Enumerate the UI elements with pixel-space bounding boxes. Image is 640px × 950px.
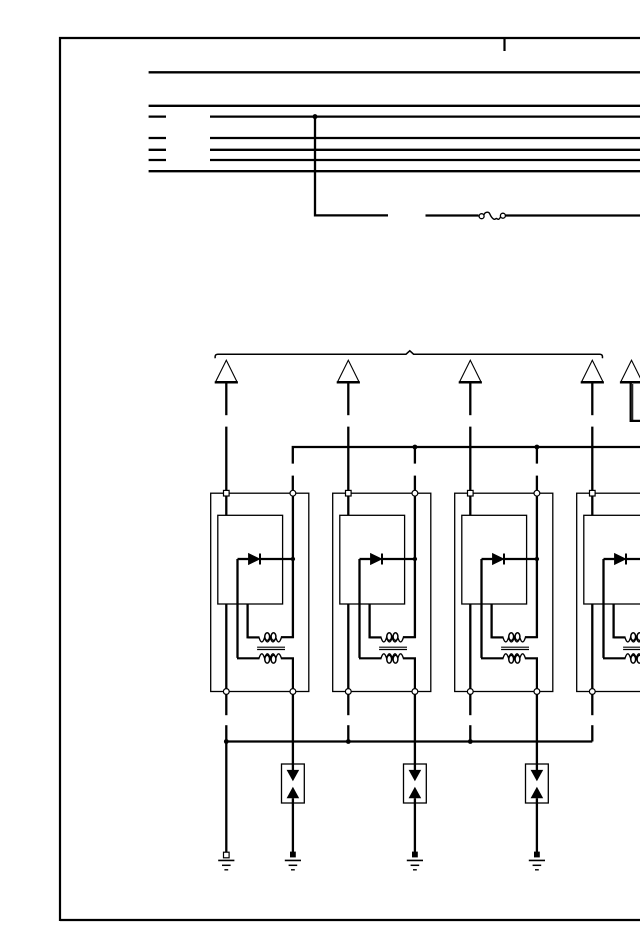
coil core 1 [257, 647, 285, 649]
wire unit 3 ground drop lower [469, 725, 471, 741]
connector triangle 2 [337, 360, 360, 382]
junction dot diode D1 cathode [291, 557, 295, 561]
wire unit 4 ground drop upper [591, 694, 593, 715]
spark plug P2 [404, 764, 427, 803]
terminal unit 1 bottom-left [223, 689, 229, 695]
wire fuse output segment [505, 214, 640, 216]
wire line a [210, 115, 640, 117]
wire bus to ground G1 [225, 742, 227, 853]
fuse F1 [479, 212, 505, 219]
wire unit 2 igniter to primary [368, 604, 370, 639]
wire secondary 1 to spark plug [292, 694, 294, 770]
secondary winding 1 [237, 654, 293, 689]
igniter box 3 [462, 515, 527, 604]
wire line b [210, 137, 640, 139]
wire unit 1 igniter to bottom terminal [225, 604, 227, 689]
terminal unit 3 bottom-right [534, 689, 540, 695]
junction dot bus drop 2 [413, 445, 418, 450]
terminal unit 4 top-left [590, 490, 596, 496]
ignition coil unit 2 case [333, 493, 431, 691]
wire line d [210, 159, 640, 161]
wire distribution bus [293, 447, 640, 464]
wire fuse feed segment [426, 214, 479, 216]
wire triangle 5 exit [631, 383, 640, 421]
terminal unit 3 top-right [534, 490, 540, 496]
wire bus line 2 [149, 105, 640, 107]
wire triangle 2 stem upper [347, 383, 349, 415]
wire triangle 1 stem lower [225, 427, 227, 491]
wire unit 3 igniter to bottom terminal [469, 604, 471, 689]
page marker tick [503, 38, 505, 51]
diode D3 [482, 553, 537, 564]
wire spark plug 1 to ground [292, 798, 294, 852]
wire triangle 2 stem lower [347, 427, 349, 491]
diode D4 [604, 553, 640, 564]
wire unit 1 input to igniter [225, 494, 227, 515]
wire unit 3 ground drop upper [469, 694, 471, 715]
terminal unit 2 top-right [412, 490, 418, 496]
terminal unit 2 top-left [346, 490, 352, 496]
ignition coil unit 1 case [211, 493, 309, 691]
connector triangle 3 [459, 360, 482, 382]
wire unit 3 right vertical [536, 494, 538, 638]
wire line c [210, 149, 640, 151]
primary winding 1 [248, 633, 294, 642]
wire triangle 3 stem upper [469, 383, 471, 415]
wire unit 2 diode anode to secondary [358, 559, 360, 658]
spark plug P3 [526, 764, 549, 803]
spark plug P1 [282, 764, 305, 803]
wire triangle 1 stem upper [225, 383, 227, 415]
ignition coil unit 4 case [577, 493, 640, 691]
junction dot ground bus mid 1 [346, 739, 351, 744]
junction dot ground bus mid 2 [468, 739, 473, 744]
wire unit 1 igniter to primary [246, 604, 248, 639]
wire bus line 3 [149, 170, 640, 172]
primary winding 4 [614, 633, 640, 642]
terminal unit 2 bottom-left [345, 689, 351, 695]
wire unit 2 right vertical [414, 494, 416, 638]
coil core 2 [379, 647, 407, 649]
wire stub b [149, 137, 166, 139]
wire unit 1 ground drop upper [225, 694, 227, 715]
wire stub c [149, 149, 166, 151]
ground G1 [218, 852, 234, 870]
wire triangle 4 stem upper [591, 383, 593, 415]
wire unit 2 input to igniter [347, 494, 349, 515]
terminal unit 3 top-left [468, 490, 474, 496]
igniter box 1 [218, 515, 283, 604]
terminal unit 1 top-right [290, 490, 296, 496]
wire stub a [149, 115, 166, 117]
wire unit 3 diode anode to secondary [480, 559, 482, 658]
junction dot on line a [313, 114, 318, 119]
wire bus drop 2 lower [414, 476, 416, 491]
wire unit 3 input to igniter [469, 494, 471, 515]
coil core 4 [623, 647, 640, 649]
wire edge sliver [632, 384, 634, 420]
wire unit 4 diode anode to secondary [602, 559, 604, 658]
wire bus drop 3 lower [536, 476, 538, 491]
connector triangle 5 [620, 360, 640, 382]
wire secondary 2 to spark plug [414, 694, 416, 770]
wire unit 2 ground drop lower [347, 725, 349, 741]
ground G2 [285, 852, 301, 870]
ground G4 [529, 852, 545, 870]
coil core 3 [501, 647, 529, 649]
wire bus drop 1 lower [292, 476, 294, 491]
wire secondary 3 to spark plug [536, 694, 538, 770]
terminal unit 1 top-left [224, 490, 230, 496]
wire unit 4 igniter to primary [612, 604, 614, 639]
secondary winding 3 [481, 654, 537, 689]
wire unit 1 diode anode to secondary [236, 559, 238, 658]
wire drop to fuse row [315, 117, 388, 216]
secondary winding 2 [359, 654, 415, 689]
wire bus drop 3 upper [536, 448, 538, 464]
junction dot diode D3 cathode [535, 557, 539, 561]
wire stub d [149, 159, 166, 161]
wire ground bus [226, 740, 592, 742]
primary winding 2 [370, 633, 416, 642]
wire unit 1 ground drop lower [225, 725, 227, 741]
wire bus line 1 [149, 71, 640, 73]
wire triangle 4 stem lower [591, 427, 593, 491]
brace connector group [215, 351, 602, 358]
connector triangle 1 [215, 360, 238, 382]
secondary winding 4 [603, 654, 640, 689]
wire spark plug 3 to ground [536, 798, 538, 852]
primary winding 3 [492, 633, 538, 642]
ignition coil unit 3 case [455, 493, 553, 691]
ground G3 [407, 852, 423, 870]
terminal unit 1 bottom-right [290, 689, 296, 695]
junction dot diode D2 cathode [413, 557, 417, 561]
wire unit 4 igniter to bottom terminal [591, 604, 593, 689]
connector triangle 4 [581, 360, 604, 382]
wire unit 2 igniter to bottom terminal [347, 604, 349, 689]
terminal unit 2 bottom-right [412, 689, 418, 695]
terminal unit 4 bottom-left [589, 689, 595, 695]
wire spark plug 2 to ground [414, 798, 416, 852]
junction dot ground bus left [224, 739, 229, 744]
wire unit 3 igniter to primary [490, 604, 492, 639]
wire unit 2 ground drop upper [347, 694, 349, 715]
igniter box 4 [584, 515, 640, 604]
wire triangle 3 stem lower [469, 427, 471, 491]
wire unit 4 ground drop lower [591, 725, 593, 741]
wire unit 1 right vertical [292, 494, 294, 638]
diode D1 [238, 553, 293, 564]
igniter box 2 [340, 515, 405, 604]
terminal unit 3 bottom-left [467, 689, 473, 695]
wire unit 4 input to igniter [591, 494, 593, 515]
junction dot bus drop 3 [535, 445, 540, 450]
diode D2 [360, 553, 415, 564]
wire bus drop 2 upper [414, 448, 416, 464]
